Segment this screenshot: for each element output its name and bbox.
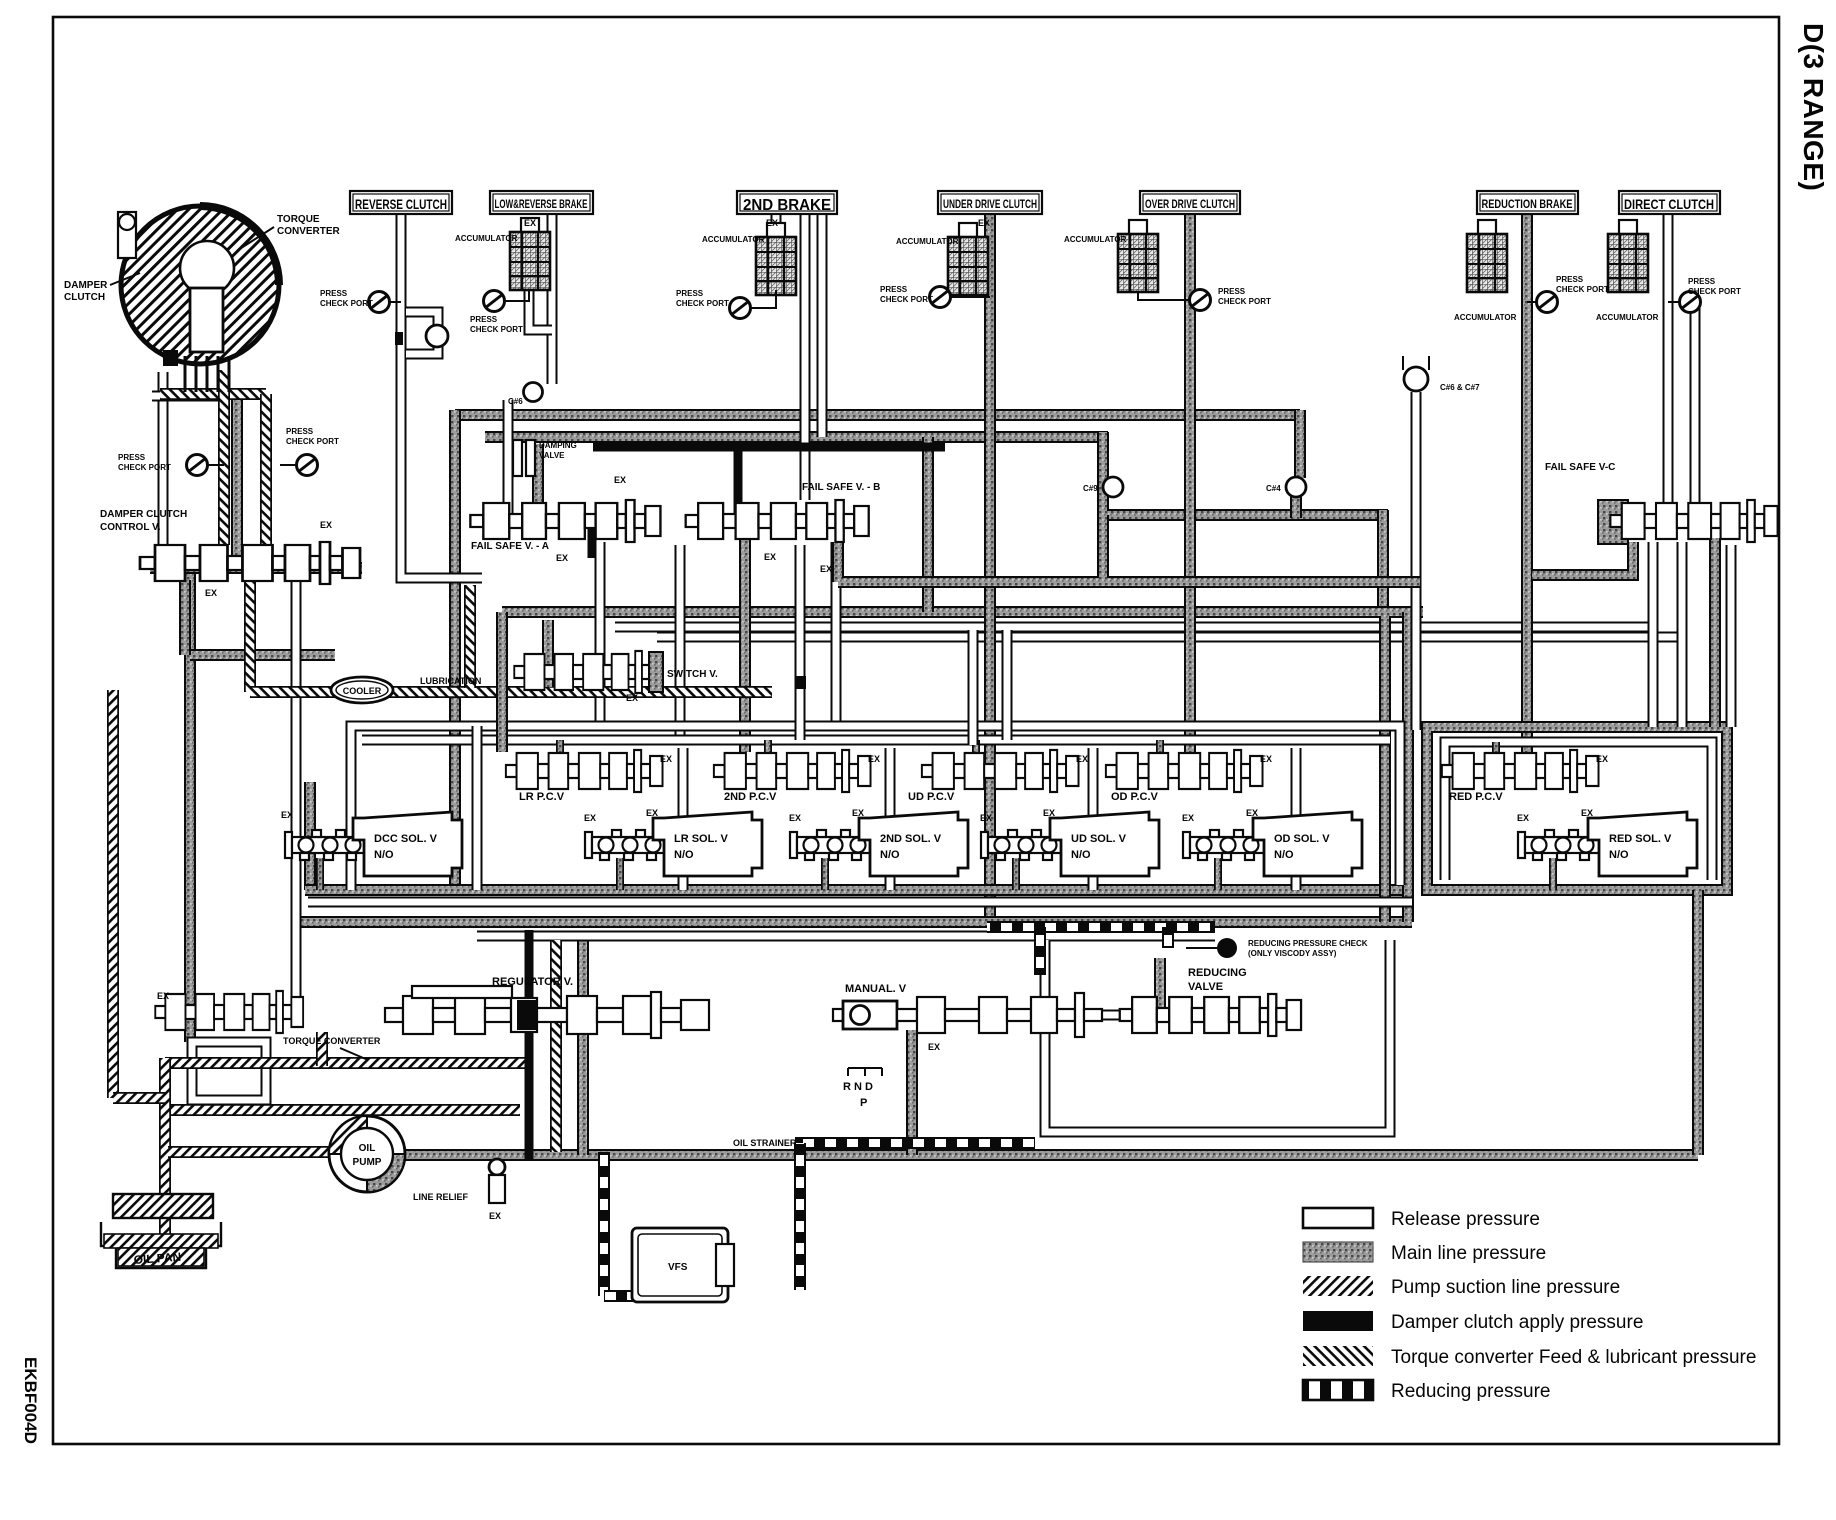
turbine hub — [190, 288, 223, 352]
svg-text:OD SOL. V: OD SOL. V — [1274, 833, 1330, 845]
svg-text:EX: EX — [764, 552, 776, 562]
wire main LR feed x502 — [496, 612, 508, 752]
svg-text:EX: EX — [978, 218, 990, 228]
wire main REDUCTION vertical x1527 — [1521, 215, 1533, 752]
press check port P4 underdrive — [949, 296, 990, 298]
wire reducing run y927 — [987, 921, 1215, 933]
wire main vertical x928 — [922, 437, 934, 612]
wire main manual valve drop x912 — [906, 1030, 918, 1155]
wire release long run y637 — [657, 632, 1682, 643]
svg-text:PRESS: PRESS — [880, 285, 908, 294]
svg-text:UD SOL. V: UD SOL. V — [1071, 833, 1127, 845]
svg-text:EX: EX — [789, 813, 801, 823]
node UNDER DRIVE CLUTCH header — [938, 191, 1042, 214]
wire main mid drop x583 — [577, 938, 589, 1155]
svg-text:REGULATOR V.: REGULATOR V. — [492, 976, 573, 988]
svg-text:Damper clutch apply pressure: Damper clutch apply pressure — [1391, 1312, 1643, 1333]
svg-text:CONTROL V.: CONTROL V. — [100, 522, 161, 533]
svg-text:ACCUMULATOR: ACCUMULATOR — [1064, 235, 1127, 244]
wire release 2nd brake line — [771, 215, 782, 237]
node LOW&REVERSE BRAKE header — [490, 191, 593, 214]
svg-text:Torque converter Feed & lubric: Torque converter Feed & lubricant pressu… — [1391, 1347, 1756, 1368]
RED pressure control valve — [1442, 750, 1599, 792]
wire pilot stub LR x620 — [616, 858, 624, 890]
damper clutch tab — [118, 212, 136, 258]
wire release accumulator LR stub — [529, 290, 552, 330]
regulator valve — [385, 1008, 403, 1022]
svg-text:CONVERTER: CONVERTER — [277, 226, 341, 237]
wire main vertical x1383 — [1377, 510, 1389, 616]
svg-text:2ND SOL. V: 2ND SOL. V — [880, 833, 942, 845]
svg-text:DAMPER CLUTCH: DAMPER CLUTCH — [100, 509, 187, 520]
wire release fail-safe-C drop x1682 — [1677, 542, 1688, 727]
svg-text:Release pressure: Release pressure — [1391, 1209, 1540, 1230]
wire reducing check stub x1168 — [1162, 927, 1174, 948]
wire release sub-block inner rect — [1445, 742, 1712, 880]
accumulator A6 direct — [1608, 220, 1648, 292]
converter hub splines — [163, 350, 178, 366]
check ball C#9 — [1103, 477, 1123, 497]
wire main left vertical x455 — [449, 410, 461, 890]
svg-text:Reducing pressure: Reducing pressure — [1391, 1381, 1550, 1402]
wire main LR vertical x538 — [532, 444, 544, 521]
press check port P7 direct — [1668, 301, 1681, 303]
fail safe valve A — [470, 500, 660, 542]
press check port P3 2nd — [749, 290, 776, 308]
wire tc-feed cooler drop x250 — [244, 580, 256, 692]
svg-text:Pump suction line pressure: Pump suction line pressure — [1391, 1277, 1620, 1298]
svg-text:N/O: N/O — [1274, 849, 1294, 861]
oil pump — [329, 1116, 405, 1192]
wire main UD vertical x990 — [984, 215, 996, 927]
wire suction main y1063 — [165, 1057, 525, 1069]
wire release unit divider x890 — [885, 748, 896, 890]
svg-text:ACCUMULATOR: ACCUMULATOR — [1454, 313, 1517, 322]
wire main block bottom y922 — [300, 916, 1412, 928]
wire release UD branch x1007 — [1002, 630, 1013, 740]
svg-text:EX: EX — [1043, 808, 1055, 818]
svg-text:EX: EX — [157, 991, 169, 1001]
legend release pressure — [1303, 1208, 1373, 1228]
svg-text:EX: EX — [524, 218, 536, 228]
switch valve — [514, 651, 662, 693]
solenoid UD SOL V — [981, 830, 1062, 860]
svg-text:PRESS: PRESS — [118, 453, 146, 462]
svg-text:N/O: N/O — [674, 849, 694, 861]
svg-text:N/O: N/O — [374, 849, 394, 861]
wire main direct drop x1715 — [1709, 538, 1721, 727]
wire main C#4 to y515 — [1290, 495, 1302, 518]
wire pilot stub RED x1553 — [1549, 858, 1557, 890]
check ball C#4 — [1286, 477, 1306, 497]
svg-text:CHECK PORT: CHECK PORT — [1688, 287, 1741, 296]
VFS solenoid — [632, 1228, 728, 1302]
solenoid LR SOL V — [585, 830, 666, 860]
svg-text:ACCUMULATOR: ACCUMULATOR — [455, 234, 518, 243]
svg-text:PRESS: PRESS — [676, 289, 704, 298]
reducing pressure check ball — [1217, 938, 1237, 958]
wire main 2ND vertical x745 — [739, 521, 751, 752]
svg-text:REDUCING: REDUCING — [1188, 967, 1247, 979]
svg-text:EX: EX — [1260, 754, 1272, 764]
press check port P6 reduction — [1527, 301, 1536, 303]
wire release block bottom thin y902 — [308, 897, 1412, 908]
svg-text:RED P.C.V: RED P.C.V — [1449, 791, 1503, 803]
wire suction tall left riser x113 — [107, 690, 119, 1098]
svg-text:EX: EX — [489, 1211, 501, 1221]
accumulator A5 reduction — [1467, 220, 1507, 292]
wire damper-apply run y441 — [593, 443, 945, 452]
svg-text:RED SOL. V: RED SOL. V — [1609, 833, 1672, 845]
solenoid RED SOL V — [1518, 830, 1599, 860]
wire pilot stub 2ND x825 — [821, 858, 829, 890]
svg-text:EX: EX — [766, 218, 778, 228]
svg-text:EX: EX — [1517, 813, 1529, 823]
wire main RED sub-block frame — [1427, 727, 1727, 890]
node DIRECT CLUTCH header — [1619, 191, 1720, 214]
wire suction filter drop x165 — [159, 1110, 171, 1250]
svg-text:PRESS: PRESS — [1688, 277, 1716, 286]
wire main top run 2 — [485, 431, 1108, 443]
solenoid 2ND SOL V — [790, 830, 871, 860]
oil filter — [113, 1194, 213, 1218]
svg-text:PRESS: PRESS — [1556, 275, 1584, 284]
wire main block left edge x310 — [304, 782, 316, 890]
wire tc-feed drop x224 — [218, 370, 230, 545]
wire tc-feed drop x266 — [260, 394, 272, 545]
wire suction left link y1098 — [113, 1092, 165, 1104]
svg-text:COOLER: COOLER — [343, 686, 382, 696]
solenoid OD SOL V — [1183, 830, 1264, 860]
wire main switch feed x548 — [542, 620, 554, 687]
wire tc-feed bottom drop x556 — [550, 940, 562, 1152]
svg-text:VALVE: VALVE — [539, 451, 565, 460]
reducing valve — [1120, 994, 1301, 1036]
svg-text:FAIL SAFE V. - B: FAIL SAFE V. - B — [802, 482, 880, 493]
svg-text:EX: EX — [626, 693, 638, 703]
wire pilot stub UD x1016 — [1012, 858, 1020, 890]
wire release fail-safe-C drop x1653 — [1648, 542, 1659, 727]
2ND pressure control valve — [714, 750, 871, 792]
svg-text:REVERSE CLUTCH: REVERSE CLUTCH — [355, 197, 447, 212]
wire main drop x1300 to C#4 — [1294, 410, 1306, 478]
press check port P5 overdrive — [1138, 292, 1188, 300]
svg-text:CHECK PORT: CHECK PORT — [1218, 297, 1271, 306]
wire main block bottom y890 — [305, 884, 1412, 896]
shift selector R N D P — [848, 1068, 882, 1076]
wire release reverse clutch line — [401, 212, 482, 578]
svg-text:DAMPING: DAMPING — [539, 441, 577, 450]
node OVER DRIVE CLUTCH header — [1140, 191, 1240, 214]
wire release manual-reducing link — [1062, 1010, 1128, 1021]
press check port P2 low-reverse — [503, 290, 529, 301]
wire pilot stub DCC x320 — [316, 858, 324, 890]
svg-text:MANUAL. V: MANUAL. V — [845, 983, 907, 995]
wire main cooler feed y655 — [190, 649, 335, 661]
wire damper-apply drop x738 — [734, 447, 743, 516]
svg-text:CHECK PORT: CHECK PORT — [470, 325, 523, 334]
svg-text:EX: EX — [556, 553, 568, 563]
wire release unit divider x477 — [472, 726, 483, 890]
fail safe valve C — [1610, 500, 1777, 542]
cooler — [331, 677, 393, 703]
wire main riser x1698 — [1692, 890, 1704, 1155]
legend torque converter feed pressure — [1303, 1346, 1373, 1366]
svg-text:LR SOL. V: LR SOL. V — [674, 833, 728, 845]
wire suction main y1110 — [170, 1104, 520, 1116]
svg-text:EX: EX — [584, 813, 596, 823]
svg-text:Main line pressure: Main line pressure — [1391, 1243, 1546, 1264]
wire main reducing valve stub x1160 — [1154, 958, 1166, 1008]
wire release direct check-port drop — [1690, 305, 1701, 520]
wire release switch drop x680 — [675, 545, 686, 740]
svg-text:2ND P.C.V: 2ND P.C.V — [724, 791, 777, 803]
check ball C#6 & C#7 — [1404, 367, 1428, 391]
legend main line pressure — [1303, 1242, 1373, 1262]
svg-text:N/O: N/O — [1071, 849, 1091, 861]
wire suction pump inlet y1152 — [168, 1146, 332, 1158]
svg-text:LINE RELIEF: LINE RELIEF — [413, 1192, 469, 1202]
line relief valve — [489, 1159, 505, 1175]
svg-text:R N D: R N D — [843, 1081, 873, 1093]
svg-text:PRESS: PRESS — [470, 315, 498, 324]
accumulator A4 overdrive — [1118, 220, 1158, 292]
wire main twin vertical x1385 — [1379, 616, 1391, 922]
svg-text:PRESS: PRESS — [1218, 287, 1246, 296]
svg-text:DCC SOL. V: DCC SOL. V — [374, 833, 438, 845]
svg-text:ACCUMULATOR: ACCUMULATOR — [1596, 313, 1659, 322]
damper clutch piston — [180, 241, 234, 295]
wire release UD branch x973 — [968, 630, 979, 745]
svg-text:P: P — [860, 1097, 867, 1109]
wire reducing manual drop x800 — [794, 1143, 806, 1290]
accumulator A3 underdrive — [948, 223, 988, 295]
svg-text:PUMP: PUMP — [353, 1157, 382, 1168]
svg-text:C#4: C#4 — [1266, 484, 1281, 493]
wire pilot stub 2ND pcv x768 — [764, 740, 772, 755]
svg-text:CHECK PORT: CHECK PORT — [118, 463, 171, 472]
wire main twin vertical x1408 — [1402, 612, 1414, 922]
wire main OD vertical x1190 — [1184, 215, 1196, 752]
svg-text:REDUCING PRESSURE CHECK: REDUCING PRESSURE CHECK — [1248, 939, 1368, 948]
svg-text:C#6: C#6 — [508, 397, 523, 406]
svg-text:EX: EX — [980, 813, 992, 823]
svg-text:CHECK PORT: CHECK PORT — [1556, 285, 1609, 294]
wire tc-feed lubrication run y692 — [250, 686, 772, 698]
wire release C#6-C#7 drop — [1411, 392, 1422, 730]
wire pilot stub OD pcv x1160 — [1156, 740, 1164, 755]
wire main vertical x237 damper line — [231, 392, 243, 558]
UD pressure control valve — [922, 750, 1079, 792]
svg-text:CHECK PORT: CHECK PORT — [286, 437, 339, 446]
svg-text:EX: EX — [205, 588, 217, 598]
torque converter body — [121, 206, 279, 364]
press check port P9 damper right — [280, 464, 298, 466]
wire damper-apply drop x590 — [588, 522, 597, 558]
legend reducing pressure — [1303, 1380, 1373, 1400]
svg-text:LR P.C.V: LR P.C.V — [519, 791, 565, 803]
legend damper clutch apply pressure — [1303, 1311, 1373, 1331]
wire release block bottom thin y936 — [477, 931, 1215, 942]
svg-text:OIL: OIL — [359, 1143, 376, 1154]
svg-text:OD P.C.V: OD P.C.V — [1111, 791, 1159, 803]
wire release fail-safe-B drop x836 — [831, 542, 842, 726]
wire release direct clutch line — [1663, 215, 1674, 520]
svg-text:C#6 & C#7: C#6 & C#7 — [1440, 383, 1480, 392]
svg-text:EX: EX — [1182, 813, 1194, 823]
svg-text:2ND BRAKE: 2ND BRAKE — [743, 197, 831, 214]
svg-text:UNDER DRIVE CLUTCH: UNDER DRIVE CLUTCH — [943, 199, 1037, 211]
wire tc-feed regulator drop x470 — [464, 585, 476, 688]
svg-text:VFS: VFS — [668, 1262, 688, 1273]
svg-text:VALVE: VALVE — [1188, 981, 1223, 993]
damper clutch control valve — [140, 542, 360, 584]
wire main vertical x185 below damper control — [179, 580, 191, 655]
wire release low-reverse line lower — [503, 400, 514, 515]
wire pilot stub LR pcv x560 — [556, 740, 564, 755]
svg-text:EX: EX — [614, 475, 626, 485]
check ball reverse — [426, 325, 448, 347]
svg-text:DAMPER: DAMPER — [64, 280, 108, 291]
svg-text:EX: EX — [852, 808, 864, 818]
svg-text:C#9: C#9 — [1083, 484, 1098, 493]
manual valve — [833, 1009, 843, 1021]
svg-text:DIRECT CLUTCH: DIRECT CLUTCH — [1624, 197, 1714, 212]
svg-text:FAIL SAFE V-C: FAIL SAFE V-C — [1545, 462, 1615, 473]
svg-text:EX: EX — [660, 754, 672, 764]
wire suction regulator drop x322 — [316, 1032, 328, 1066]
wire release torque-converter bottom link — [152, 391, 230, 402]
accumulator A2 2nd — [756, 223, 796, 295]
OD pressure control valve — [1106, 750, 1263, 792]
svg-text:N/O: N/O — [1609, 849, 1629, 861]
wire main corner down at x1103 — [1103, 432, 1388, 515]
wire pilot stub UD pcv x976 — [972, 740, 980, 755]
svg-text:PRESS: PRESS — [286, 427, 314, 436]
svg-text:EX: EX — [646, 808, 658, 818]
wire release block top rect — [351, 726, 1400, 890]
damping valve — [513, 440, 522, 476]
wire main left frame x190 — [184, 568, 196, 1042]
svg-text:EX: EX — [868, 754, 880, 764]
node 2ND BRAKE header — [737, 191, 837, 214]
svg-text:PRESS: PRESS — [320, 289, 348, 298]
svg-text:CHECK PORT: CHECK PORT — [676, 299, 729, 308]
svg-text:TORQUE CONVERTER: TORQUE CONVERTER — [283, 1036, 381, 1046]
svg-text:CHECK PORT: CHECK PORT — [880, 295, 933, 304]
svg-text:FAIL SAFE V. - A: FAIL SAFE V. - A — [471, 541, 549, 552]
wire release fail-safe-A drop x600 — [595, 542, 606, 726]
wire main fail-safe-C base — [1598, 500, 1628, 544]
wire main mid run y612 — [502, 606, 1423, 618]
svg-text:EX: EX — [1076, 754, 1088, 764]
svg-text:ACCUMULATOR: ACCUMULATOR — [896, 237, 959, 246]
wire release reverse check loop — [406, 312, 438, 354]
svg-text:EX: EX — [1581, 808, 1593, 818]
wire release right riser x1745 — [1726, 545, 1737, 727]
wire pilot stub RED pcv x1496 — [1492, 742, 1500, 755]
svg-text:UD P.C.V: UD P.C.V — [908, 791, 955, 803]
wire reducing manual run y1143 — [795, 1137, 1035, 1149]
svg-text:D(3 RANGE): D(3 RANGE) — [1798, 23, 1829, 191]
wire release unit divider x1093 — [1088, 748, 1099, 890]
svg-text:ACCUMULATOR: ACCUMULATOR — [702, 235, 765, 244]
wire release left loop bottom — [192, 1042, 266, 1100]
wire main top run 1 — [455, 409, 1300, 421]
solenoid DCC SOL V — [285, 830, 366, 860]
svg-text:CLUTCH: CLUTCH — [64, 292, 105, 303]
svg-text:EX: EX — [820, 564, 832, 574]
svg-text:EKBF004D: EKBF004D — [21, 1357, 40, 1444]
svg-text:LOW&REVERSE BRAKE: LOW&REVERSE BRAKE — [495, 199, 588, 211]
wire main fail-safe-C link — [1532, 542, 1633, 575]
svg-text:OVER DRIVE CLUTCH: OVER DRIVE CLUTCH — [1145, 199, 1235, 211]
svg-text:EX: EX — [281, 810, 293, 820]
wire reducing drop x1040 — [1034, 927, 1046, 975]
legend pump suction line pressure — [1303, 1276, 1373, 1296]
svg-text:TORQUE: TORQUE — [277, 214, 320, 225]
accumulator A1 low-reverse — [510, 218, 550, 290]
svg-text:LUBRICATION: LUBRICATION — [420, 676, 481, 686]
wire main strainer run y1155 — [405, 1149, 1698, 1161]
svg-text:N/O: N/O — [880, 849, 900, 861]
wire pilot stub OD x1218 — [1214, 858, 1222, 890]
oil pan — [101, 1222, 221, 1268]
svg-text:EX: EX — [1246, 808, 1258, 818]
node REDUCTION BRAKE header — [1477, 191, 1578, 214]
wire tc-feed converter elbow — [160, 388, 266, 400]
wire reducing vfs link y1296 — [604, 1290, 636, 1302]
fail safe valve B — [686, 500, 869, 542]
svg-text:SWITCH V.: SWITCH V. — [667, 669, 718, 680]
wire main mid run y630 — [615, 622, 1653, 633]
wire main fail-safe-B out y580 — [838, 515, 1420, 582]
svg-text:REDUCTION BRAKE: REDUCTION BRAKE — [1482, 197, 1573, 211]
wire reducing vfs riser x604 — [598, 1152, 610, 1296]
node REVERSE CLUTCH header — [350, 191, 452, 214]
wire release low-reverse line upper — [547, 215, 558, 384]
svg-text:EX: EX — [1596, 754, 1608, 764]
press check port P8 damper left — [206, 464, 224, 466]
press check port P1 reverse — [388, 301, 401, 303]
left EX spool valve — [155, 991, 303, 1033]
svg-text:CHECK PORT: CHECK PORT — [320, 299, 373, 308]
wire release unit divider x683 — [678, 748, 689, 890]
wire main damper control feed y568 — [150, 562, 362, 574]
wire suction corner left — [159, 1058, 171, 1110]
svg-text:EX: EX — [928, 1042, 940, 1052]
LR pressure control valve — [506, 750, 663, 792]
wire release reducing block rect — [1045, 940, 1390, 1132]
wire release 2nd line lower x800 — [795, 545, 806, 740]
wire release left riser x296 — [291, 568, 302, 1012]
wire release torque-converter left drop — [158, 372, 169, 560]
svg-text:(ONLY VISCODY ASSY): (ONLY VISCODY ASSY) — [1248, 949, 1337, 958]
wire release unit divider x1296 — [1291, 748, 1302, 890]
svg-text:EX: EX — [320, 520, 332, 530]
wire release block top inner y740 — [362, 735, 1390, 746]
check ball C#6 low-reverse — [524, 383, 543, 402]
wire damper-apply bottom x529 — [525, 930, 534, 1160]
svg-text:OIL STRAINER: OIL STRAINER — [733, 1138, 797, 1148]
